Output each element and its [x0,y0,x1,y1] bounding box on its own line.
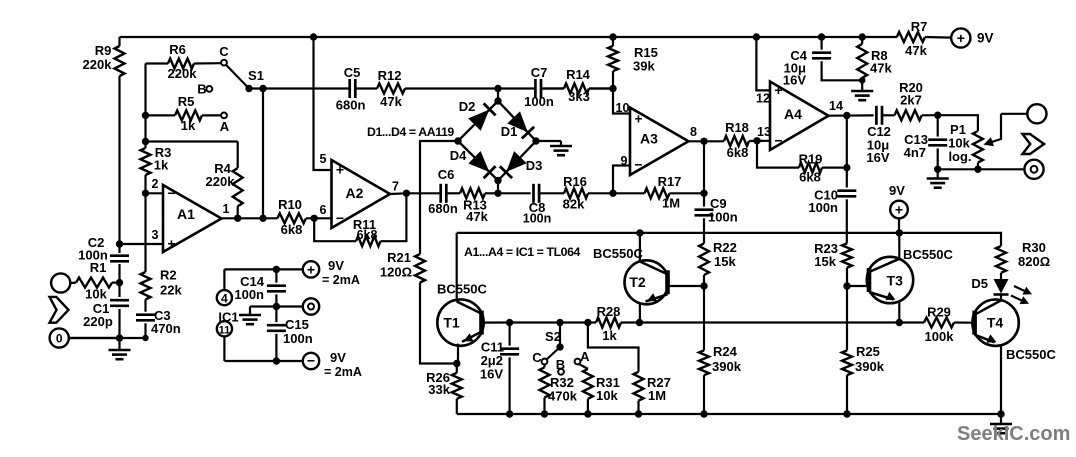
svg-text:10: 10 [616,101,630,115]
svg-text:C: C [532,350,542,365]
node T2 collector [636,229,643,236]
svg-text:T4: T4 [987,315,1004,331]
node C11 bottom [506,410,513,417]
svg-text:R24: R24 [713,344,738,359]
svg-text:470n: 470n [151,321,181,336]
svg-text:R19: R19 [799,152,823,167]
svg-text:390k: 390k [855,359,885,374]
resistor R11 feedback [314,193,406,246]
svg-text:100n: 100n [234,287,264,302]
svg-text:120Ω: 120Ω [380,265,412,280]
node S1 output junction [259,215,266,222]
switch S2 [545,323,564,360]
svg-text:10k: 10k [85,287,107,302]
svg-text:100n: 100n [808,200,838,215]
wire top +9V rail [120,36,898,38]
svg-text:390k: 390k [712,359,742,374]
wire A3 pin10 [613,89,630,116]
svg-text:100n: 100n [524,94,554,109]
terminal input jack [51,273,76,292]
resistor R2 [141,268,183,300]
node T1 emitter [453,360,460,367]
node R25 bottom [843,410,850,417]
switch S1 arm [226,65,264,92]
svg-text:D2: D2 [459,99,476,114]
switch S1 contact A [220,113,230,135]
node R20 out [934,112,941,119]
svg-text:47k: 47k [905,43,927,58]
svg-text:47k: 47k [466,209,488,224]
svg-text:4: 4 [221,291,228,305]
svg-text:A1...A4 = IC1 = TL064: A1...A4 = IC1 = TL064 [464,245,581,259]
diode D2 [459,99,496,130]
node R32 bottom [541,410,548,417]
wire C9 down [703,218,705,243]
wire T2 base wire [668,285,704,287]
terminal 0V supply [303,298,319,314]
wire bridge left to R21 [420,141,458,254]
resistor R23 [814,241,852,286]
svg-text:4n7: 4n7 [904,145,926,160]
svg-text:T3: T3 [887,273,904,289]
svg-text:IC1: IC1 [218,310,238,325]
wire pin2 down to R2 [144,193,146,272]
svg-text:R30: R30 [1022,240,1046,255]
input arrow [50,297,69,323]
svg-text:2: 2 [152,177,159,191]
wire feedback to R4 [146,140,238,142]
node R19 right [843,164,850,171]
wire bridge edges [458,101,536,181]
wire T1 collector [456,233,458,300]
node A2 output [403,190,410,197]
svg-text:10k: 10k [596,388,618,403]
svg-text:C15: C15 [285,317,309,332]
svg-text:C: C [219,44,229,59]
terminal +9V supply [303,258,360,287]
resistor R7 [897,19,951,58]
resistor R20 [882,80,938,120]
terminal 0V jack [50,328,120,347]
svg-text:6k8: 6k8 [799,170,821,185]
resistor R16 [539,174,613,212]
svg-text:39k: 39k [633,59,655,74]
node bridge left [454,137,461,144]
svg-text:A2: A2 [346,185,364,201]
capacitor C9 [695,196,738,225]
svg-text:470k: 470k [548,389,578,404]
svg-text:BC550C: BC550C [437,282,487,297]
svg-text:B: B [556,357,565,372]
node R24 bottom [700,410,707,417]
capacitor C2 [78,235,129,263]
resistor R25 [842,286,885,414]
svg-text:6k8: 6k8 [357,228,378,242]
svg-text:1k: 1k [602,328,617,343]
node R4 output junction [234,215,241,222]
diode D4 [450,148,496,178]
capacitor C15 [267,307,313,362]
svg-text:1M: 1M [648,388,666,403]
svg-text:+: + [634,111,642,127]
wire C10 down [846,199,848,243]
svg-text:R2: R2 [160,268,177,283]
node C13 bottom [934,166,941,173]
resistor R14 [541,67,613,104]
svg-text:2k7: 2k7 [900,93,922,108]
transistor T3 [867,233,954,323]
node R5 junction [142,112,149,119]
wire T1 base [482,321,510,323]
resistor R27 [634,372,671,414]
wire R9 branch vertical [118,37,120,253]
terminal IC1 pin11 [217,310,277,362]
wire A4 pin12 [753,33,770,105]
svg-text:D1...D4 = AA119: D1...D4 = AA119 [367,125,454,139]
capacitor C5 [336,65,366,113]
svg-text:A4: A4 [784,106,802,122]
wire A1 pin3 [120,228,164,244]
svg-text:+: + [774,82,782,98]
label TL064 [464,245,581,259]
wire T3 base wire [847,285,869,287]
svg-text:47k: 47k [870,61,892,76]
svg-text:1k: 1k [154,158,169,173]
svg-text:A3: A3 [640,131,658,147]
svg-text:R17: R17 [658,174,682,189]
switch S1 contact C [219,44,229,66]
svg-text:16V: 16V [480,367,503,382]
capacitor C1 [83,300,129,329]
svg-text:R9: R9 [95,43,112,58]
resistor R6 [146,42,222,81]
svg-text:−: − [774,132,782,148]
svg-text:9V: 9V [977,31,994,46]
wire 9V mid stub [898,218,900,233]
ground R8 [851,88,873,100]
node bridge top [494,97,501,104]
svg-text:C7: C7 [531,65,548,80]
wire A3 output [688,125,724,141]
wire bridge bottom row [498,192,531,194]
resistor R4 [206,142,243,219]
svg-text:R18: R18 [725,120,749,135]
svg-text:1k: 1k [181,118,196,133]
resistor R10 [277,197,314,237]
node R1-C2-C1 junction [116,279,123,286]
node C1-ground junction [116,334,123,341]
svg-text:680n: 680n [428,201,458,216]
potentiometer P1 [948,122,983,169]
capacitor C6 [428,167,458,216]
wire A1 output [222,202,278,218]
svg-text:100k: 100k [925,329,955,344]
capacitor C8 [523,184,552,226]
terminal IC1 pin4 [217,269,277,305]
capacitor C12 [866,106,891,165]
svg-text:A: A [220,119,230,134]
svg-text:R14: R14 [566,67,591,82]
wire bridge right to ground [536,140,561,142]
svg-text:3: 3 [152,228,159,242]
svg-text:8: 8 [690,125,697,139]
switch S2 contact A [575,349,591,364]
svg-text:R21: R21 [387,250,411,265]
svg-text:100n: 100n [283,331,313,346]
resistor R29 [899,305,972,345]
svg-text:+: + [307,262,315,278]
svg-text:R22: R22 [713,240,737,255]
wire emitter rail [640,321,900,323]
wire minus9 stub [276,360,303,362]
node C11 top [506,319,513,326]
resistor R17 [613,174,704,211]
svg-text:−: − [307,352,315,368]
svg-text:0: 0 [56,332,63,346]
terminal +9V mid [889,183,908,218]
wire A3 out vertical [703,141,705,206]
resistor R15 [608,33,658,88]
svg-text:C5: C5 [344,65,361,80]
resistor R21 [380,250,457,364]
wire A2 pin6 [314,203,331,218]
op-amp A4 [757,82,828,151]
svg-text:16V: 16V [866,150,889,165]
svg-text:R28: R28 [597,304,621,319]
node feedback junction [142,138,149,145]
node pin3 junction [116,240,123,247]
svg-text:BC550C: BC550C [593,246,643,261]
node 0V end at C3 [142,335,148,341]
svg-text:9V: 9V [328,258,344,273]
svg-text:14: 14 [829,99,843,113]
capacitor C11 [480,323,519,415]
svg-text:100n: 100n [708,210,738,225]
svg-text:log.: log. [948,149,971,164]
svg-text:BC550C: BC550C [903,247,953,262]
resistor R8 [857,33,892,88]
node R31 bottom [584,410,591,417]
svg-text:R25: R25 [856,344,880,359]
resistor R26 [426,364,462,415]
wire C1 to 0V rail [118,309,120,338]
svg-text:T2: T2 [629,274,646,290]
svg-text:1: 1 [223,202,230,216]
svg-text:R6: R6 [169,42,186,57]
svg-text:R16: R16 [563,174,587,189]
svg-text:3k3: 3k3 [568,89,590,104]
node bridge right [532,137,539,144]
terminal +9V main [951,28,993,47]
resistor R30 [996,240,1050,273]
svg-text:100n: 100n [78,248,108,263]
wire P1 bottom row [938,168,1025,170]
resistor R3 [141,145,172,175]
svg-text:S1: S1 [248,68,264,83]
svg-text:R10: R10 [278,197,302,212]
node S1 pole [259,85,266,92]
transistor T1 [437,282,487,364]
svg-text:220k: 220k [168,66,198,81]
svg-text:680n: 680n [336,98,366,113]
svg-text:5: 5 [320,152,327,166]
svg-text:13: 13 [757,125,771,139]
svg-text:D1: D1 [501,124,518,139]
diode D5 LED [971,273,1008,301]
svg-text:220k: 220k [206,174,236,189]
wire collector rail [457,233,1001,246]
label AA119 [367,125,454,139]
node T2 emitter [636,319,643,326]
svg-text:22k: 22k [160,283,182,298]
capacitor C4 [783,33,862,87]
terminal -9V supply [303,350,362,379]
ground output [990,414,1012,433]
ground input [109,338,131,359]
wire 0V rail [69,337,145,339]
svg-text:220k: 220k [83,57,113,72]
transistor T2 [593,233,669,323]
resistor R9 [83,43,125,76]
svg-text:= 2mA: = 2mA [322,273,360,287]
wire A2 output [390,180,440,195]
wire pin2 to A1 [146,177,164,193]
node pin2 junction [142,190,149,197]
svg-text:= 2mA: = 2mA [324,365,362,379]
switch S2 contact C [532,350,547,365]
wire ground stub IC1 [250,307,276,316]
svg-text:82k: 82k [563,197,585,212]
node C14 top [273,266,280,273]
wire A4 output [829,99,874,116]
capacitor C3 [136,299,181,338]
node pin9 drop [609,190,616,197]
svg-text:−: − [167,185,175,201]
node P1 bottom [974,166,981,173]
svg-text:220p: 220p [83,314,113,329]
wire R6/R5 vertical [144,64,146,149]
node bridge bottom node [494,190,501,197]
node T2 base [700,282,707,289]
wire C2 to R1 node [118,264,120,297]
resistor R24 [699,286,742,414]
svg-text:+: + [957,30,965,46]
node A4 output [843,112,850,119]
svg-text:6k8: 6k8 [281,222,303,237]
node C15 bottom [273,357,280,364]
svg-text:6k8: 6k8 [727,145,749,160]
node R27 bottom [635,410,642,417]
terminal output gnd [1024,160,1043,179]
svg-text:D3: D3 [526,158,543,173]
diode D1 [501,112,534,139]
transistor T4 [972,300,1056,415]
watermark [957,423,1070,445]
svg-text:BC550C: BC550C [1006,347,1056,362]
capacitor C13 [904,115,948,169]
svg-text:9: 9 [621,154,628,168]
wire S1 pole to C5 row [249,87,613,89]
svg-text:820Ω: 820Ω [1018,254,1050,269]
node 9V collector rail [896,229,903,236]
node R14-R15 junction [609,85,616,92]
wire R3 to pin2 [144,175,146,193]
svg-text:7: 7 [392,180,399,194]
op-amp A3 [630,108,689,176]
output arrow [1023,134,1045,154]
resistor R28 [596,304,640,343]
wire S1 pole down to A1 output [262,89,264,219]
node bridge top stub [494,85,501,101]
node A4 pin13 [753,137,760,144]
svg-text:C6: C6 [438,167,455,182]
resistor R19 feedback [757,141,847,185]
svg-text:100n: 100n [523,212,552,226]
wire A3 pin9 [613,154,630,193]
switch S2 contact B [556,357,565,375]
node A2 pin6 [311,215,318,222]
svg-text:A: A [580,349,590,364]
svg-text:−: − [634,156,642,172]
wire A2 pin5 [310,33,332,170]
resistor R1 [76,260,120,302]
svg-text:R7: R7 [911,19,928,34]
svg-text:15k: 15k [814,254,836,269]
svg-text:T1: T1 [443,315,460,331]
svg-text:16V: 16V [783,73,806,88]
node C14-C15 mid [273,303,280,310]
node T4 emitter bottom [997,410,1004,417]
resistor R31 [579,364,620,414]
svg-text:11: 11 [219,324,231,336]
ground C13 [927,170,949,188]
svg-text:9V: 9V [330,350,346,365]
svg-text:1M: 1M [662,196,680,211]
svg-text:6: 6 [320,203,327,217]
resistor R12 [377,68,405,109]
ground IC1 [239,315,261,324]
svg-text:D4: D4 [450,148,467,163]
capacitor C10 [808,168,856,215]
switch S1 contact B [197,81,212,96]
wire plus9 stub [276,268,303,270]
svg-text:+: + [895,202,903,218]
wire mid stub [276,305,303,307]
node A3 output [700,138,707,145]
node bridge bottom [494,177,501,194]
svg-text:33k: 33k [428,382,450,397]
svg-text:12: 12 [756,92,770,106]
node T3 base [843,282,850,289]
wire R27 branch [588,323,639,372]
svg-text:R12: R12 [378,68,402,83]
resistor R22 [699,240,737,286]
wire R19 to output [846,116,848,168]
terminal output hot [1001,104,1047,123]
svg-text:B: B [197,81,206,96]
svg-text:+: + [167,236,175,252]
ground bridge [550,141,572,155]
wire base rail [510,321,596,323]
svg-text:47k: 47k [380,94,402,109]
node T3 emitter [896,319,903,326]
resistor R32 [540,364,578,414]
svg-text:A1: A1 [177,206,195,222]
pot P1 wiper [984,114,1002,146]
wire bottom rail [457,413,1001,415]
node R28 branch [584,319,591,326]
svg-text:9V: 9V [889,183,905,198]
